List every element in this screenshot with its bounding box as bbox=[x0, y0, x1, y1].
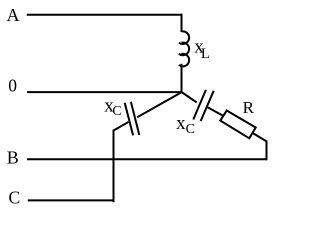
wire right diagonal lower segment bbox=[208, 107, 224, 116]
svg-text:R: R bbox=[243, 98, 255, 117]
svg-text:L: L bbox=[201, 46, 210, 62]
resistor R body bbox=[220, 111, 255, 139]
wire right vertical drop to B bbox=[266, 141, 268, 161]
wire left vertical drop to C bbox=[113, 130, 115, 202]
svg-text:0: 0 bbox=[8, 75, 17, 95]
wire neutral 0 horizontal bbox=[27, 91, 182, 93]
capacitor xC right plate left bbox=[193, 90, 206, 120]
capacitor xC right plate right bbox=[201, 91, 214, 121]
capacitor xC left plate left bbox=[125, 103, 133, 136]
inductor XL bbox=[179, 31, 189, 66]
svg-text:x: x bbox=[176, 113, 186, 134]
wire phase C horizontal bbox=[28, 199, 115, 201]
svg-text:C: C bbox=[9, 187, 21, 207]
svg-text:A: A bbox=[7, 5, 20, 25]
svg-text:B: B bbox=[7, 148, 19, 168]
wire left diagonal upper segment bbox=[137, 92, 182, 117]
wire inductor to junction bbox=[181, 64, 183, 93]
wire vertical from A to inductor bbox=[181, 14, 183, 32]
wire left diagonal lower segment bbox=[113, 122, 129, 131]
svg-text:C: C bbox=[112, 104, 121, 119]
wire phase B horizontal bbox=[27, 158, 268, 160]
wire resistor to corner bbox=[253, 133, 268, 142]
capacitor xC left plate right bbox=[131, 102, 139, 135]
wire phase A horizontal bbox=[27, 14, 183, 16]
wire right diagonal upper segment bbox=[182, 92, 197, 102]
svg-text:C: C bbox=[186, 122, 195, 137]
